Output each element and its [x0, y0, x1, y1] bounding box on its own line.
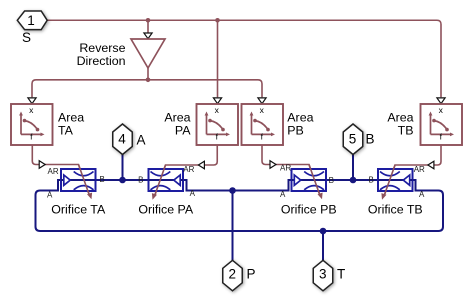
svg-text:AR: AR [414, 165, 425, 174]
svg-text:B: B [138, 175, 143, 184]
svg-text:Direction: Direction [77, 54, 126, 68]
svg-text:B: B [369, 175, 374, 184]
svg-text:Orifice PB: Orifice PB [281, 203, 337, 217]
svg-text:AR: AR [183, 165, 194, 174]
svg-text:Orifice PA: Orifice PA [138, 203, 194, 217]
svg-text:PB: PB [287, 123, 304, 137]
svg-text:x: x [260, 105, 265, 115]
svg-text:TB: TB [398, 123, 414, 137]
svg-text:1: 1 [27, 13, 35, 28]
svg-text:2: 2 [228, 267, 236, 282]
svg-text:TA: TA [58, 123, 74, 137]
svg-text:PA: PA [175, 123, 191, 137]
svg-text:B: B [329, 176, 334, 185]
svg-text:x: x [215, 105, 220, 115]
svg-text:B: B [100, 175, 105, 184]
svg-text:B: B [366, 132, 375, 147]
svg-text:P: P [247, 266, 256, 281]
svg-text:AR: AR [48, 167, 59, 176]
svg-text:A: A [47, 191, 53, 200]
svg-text:x: x [439, 105, 444, 115]
svg-text:AR: AR [280, 164, 291, 173]
svg-text:Orifice TA: Orifice TA [51, 203, 106, 217]
svg-text:Orifice TB: Orifice TB [368, 203, 423, 217]
svg-text:A: A [190, 189, 196, 198]
svg-text:T: T [337, 267, 345, 282]
svg-text:A: A [137, 132, 146, 147]
svg-text:3: 3 [319, 267, 327, 282]
svg-text:A: A [419, 190, 425, 199]
svg-text:x: x [29, 105, 34, 115]
svg-text:5: 5 [349, 132, 357, 147]
svg-text:A: A [280, 190, 286, 199]
svg-text:S: S [22, 30, 31, 45]
svg-text:4: 4 [118, 132, 126, 147]
